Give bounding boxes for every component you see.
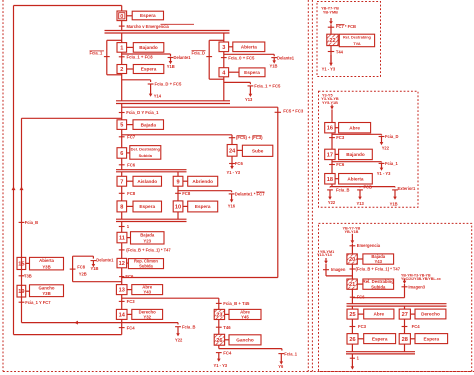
svg-text:Espera: Espera: [140, 13, 156, 18]
svg-text:Y3B: Y3B: [42, 291, 50, 296]
svg-text:Y1 - Y3: Y1 - Y3: [322, 67, 336, 72]
svg-text:Y1 - Y3: Y1 - Y3: [214, 363, 228, 368]
svg-text:0: 0: [120, 14, 123, 20]
svg-text:Y1 - Y3: Y1 - Y3: [227, 170, 241, 175]
svg-text:Fcia_D: Fcia_D: [385, 134, 398, 139]
svg-text:26: 26: [216, 338, 222, 344]
svg-text:Del. Destrabing: Del. Destrabing: [131, 146, 161, 151]
svg-text:Sube: Sube: [252, 148, 264, 153]
svg-text:Y2B: Y2B: [79, 271, 87, 276]
svg-text:Y43: Y43: [143, 290, 151, 295]
svg-text:7: 7: [120, 179, 123, 185]
svg-text:Delante1: Delante1: [174, 55, 192, 60]
svg-text:T46: T46: [223, 325, 231, 330]
svg-text:Imagen3: Imagen3: [408, 284, 425, 289]
svg-text:17: 17: [327, 152, 333, 158]
svg-text:25: 25: [349, 312, 355, 318]
svg-text:YbC/2/2Y3B-YB/YBL-xx: YbC/2/2Y3B-YB/YBL-xx: [401, 277, 441, 281]
svg-text:Y45: Y45: [241, 315, 249, 320]
svg-text:YB-Y1B: YB-Y1B: [345, 230, 359, 234]
svg-text:Espera: Espera: [244, 70, 260, 75]
svg-text:T44: T44: [336, 49, 344, 54]
svg-text:12: 12: [119, 261, 125, 267]
svg-text:Fcia_D Y Fcia_1: Fcia_D Y Fcia_1: [126, 110, 159, 115]
svg-text:20: 20: [349, 257, 355, 263]
svg-text:FC4: FC4: [127, 325, 136, 330]
svg-text:Bajada: Bajada: [141, 122, 157, 127]
svg-text:FC6: FC6: [127, 163, 136, 168]
svg-text:Fcia_B + T45: Fcia_B + T45: [223, 301, 250, 306]
svg-text:Abierta: Abierta: [39, 258, 54, 263]
svg-text:Imagen: Imagen: [331, 267, 346, 272]
svg-text:26: 26: [349, 337, 355, 343]
svg-text:Bajando: Bajando: [139, 45, 158, 50]
svg-text:T3B: T3B: [24, 273, 32, 278]
svg-text:FCB: FCB: [364, 185, 372, 190]
svg-text:(Fcia_B + Fcia_1) * T47: (Fcia_B + Fcia_1) * T47: [126, 248, 171, 253]
svg-text:28: 28: [402, 337, 408, 343]
svg-text:Y13: Y13: [245, 97, 253, 102]
svg-text:Subida: Subida: [139, 264, 153, 269]
svg-text:FC8: FC8: [77, 265, 85, 270]
svg-text:FC6: FC6: [125, 274, 134, 279]
svg-text:FC6: FC6: [235, 161, 244, 166]
svg-text:Fcia_1: Fcia_1: [284, 351, 297, 356]
svg-text:Abre: Abre: [373, 312, 384, 317]
svg-text:Delante1: Delante1: [277, 55, 295, 60]
svg-text:Delante1: Delante1: [96, 257, 114, 262]
svg-text:21: 21: [349, 282, 355, 288]
svg-text:YY5-Y1B: YY5-Y1B: [322, 101, 338, 105]
svg-text:FC3: FC3: [336, 135, 345, 140]
svg-text:Espera: Espera: [195, 204, 211, 209]
svg-text:Subida: Subida: [371, 284, 386, 289]
svg-text:Fcia_1: Fcia_1: [385, 161, 398, 166]
svg-text:Y1B: Y1B: [270, 64, 278, 69]
svg-text:Gancho: Gancho: [236, 338, 254, 343]
svg-text:Fcia_1: Fcia_1: [90, 51, 103, 56]
svg-text:Fcia_D + FC5: Fcia_D + FC5: [155, 82, 182, 87]
svg-text:Y1B: Y1B: [390, 202, 398, 207]
svg-text:8: 8: [120, 204, 123, 210]
svg-text:6: 6: [120, 151, 123, 157]
svg-text:3: 3: [222, 45, 225, 51]
svg-text:Abierta: Abierta: [347, 176, 364, 181]
svg-text:FC3: FC3: [127, 299, 136, 304]
svg-text:Espera: Espera: [141, 67, 157, 72]
svg-text:Abierta: Abierta: [241, 44, 258, 49]
svg-text:Espera: Espera: [423, 336, 439, 341]
svg-text:18: 18: [327, 177, 333, 183]
svg-text:Fcia_B: Fcia_B: [25, 220, 38, 225]
svg-text:Exterior1: Exterior1: [398, 186, 416, 191]
svg-text:10: 10: [175, 204, 181, 210]
svg-text:FC6: FC6: [357, 295, 365, 300]
svg-text:Emergencia: Emergencia: [357, 243, 381, 248]
svg-text:(Fcia_B + Fcia_1) * T47: (Fcia_B + Fcia_1) * T47: [356, 267, 401, 272]
svg-text:YB-YMB: YB-YMB: [323, 11, 338, 15]
svg-text:Y16: Y16: [228, 204, 236, 209]
svg-text:15: 15: [18, 261, 24, 267]
svg-text:FC5 * FC3: FC5 * FC3: [283, 108, 304, 113]
svg-text:FC8: FC8: [127, 191, 136, 196]
svg-text:Derecho: Derecho: [421, 312, 440, 317]
svg-text:Y13: Y13: [357, 201, 365, 206]
svg-text:Y13-Y14: Y13-Y14: [317, 253, 333, 257]
svg-text:Y43: Y43: [375, 259, 383, 264]
svg-text:Fcia_D: Fcia_D: [192, 50, 205, 55]
svg-text:2: 2: [120, 67, 123, 73]
svg-text:11: 11: [119, 236, 125, 242]
svg-text:Bajando: Bajando: [346, 152, 365, 157]
svg-text:Y1 - Y3: Y1 - Y3: [377, 171, 391, 176]
svg-text:Fcia_1 + FC5: Fcia_1 + FC5: [254, 84, 281, 89]
svg-text:FC4: FC4: [223, 350, 232, 355]
svg-text:Abre: Abre: [349, 125, 360, 130]
svg-text:19: 19: [18, 289, 24, 295]
svg-text:5: 5: [120, 123, 123, 129]
svg-text:9: 9: [176, 179, 179, 185]
svg-text:Y22: Y22: [175, 337, 183, 342]
svg-text:23: 23: [216, 312, 222, 318]
svg-text:FC4: FC4: [412, 324, 421, 329]
svg-text:Fcia_1 + FC8: Fcia_1 + FC8: [127, 54, 154, 59]
svg-text:Y32: Y32: [143, 314, 151, 319]
svg-text:Gancho: Gancho: [39, 285, 55, 290]
svg-text:Y22: Y22: [382, 145, 390, 150]
svg-text:Fcia_0 + FC5: Fcia_0 + FC5: [228, 55, 255, 60]
svg-text:13: 13: [119, 288, 125, 294]
svg-text:24: 24: [229, 148, 236, 154]
svg-text:FC8: FC8: [182, 191, 191, 196]
svg-text:Y22: Y22: [328, 200, 336, 205]
svg-text:TVA: TVA: [353, 42, 361, 46]
svg-text:Y23: Y23: [143, 238, 151, 243]
svg-text:Y1B: Y1B: [167, 64, 175, 69]
svg-text:14: 14: [119, 312, 126, 318]
svg-text:Abriendo: Abriendo: [192, 179, 213, 184]
svg-text:Y1B: Y1B: [91, 266, 99, 271]
svg-text:16: 16: [327, 126, 333, 132]
svg-text:1: 1: [120, 45, 123, 51]
svg-text:FC3: FC3: [358, 324, 367, 329]
svg-text:Y14: Y14: [154, 94, 162, 99]
svg-text:Espera: Espera: [372, 336, 388, 341]
svg-text:FC6: FC6: [336, 162, 345, 167]
svg-text:27: 27: [402, 312, 408, 318]
svg-text:Aislando: Aislando: [137, 179, 157, 184]
svg-text:Bajada: Bajada: [140, 232, 155, 237]
svg-text:Fcia_B: Fcia_B: [182, 324, 195, 329]
svg-text:Espera: Espera: [139, 204, 155, 209]
svg-text:Fcia_1 Y FC7: Fcia_1 Y FC7: [25, 300, 51, 305]
svg-text:Rel. Destrabing: Rel. Destrabing: [343, 36, 372, 40]
svg-text:Fcia_B: Fcia_B: [336, 188, 349, 193]
svg-text:Y6: Y6: [278, 364, 284, 369]
svg-text:22: 22: [329, 38, 335, 44]
svg-text:Subida: Subida: [139, 153, 153, 158]
svg-text:Y3B: Y3B: [42, 264, 50, 269]
